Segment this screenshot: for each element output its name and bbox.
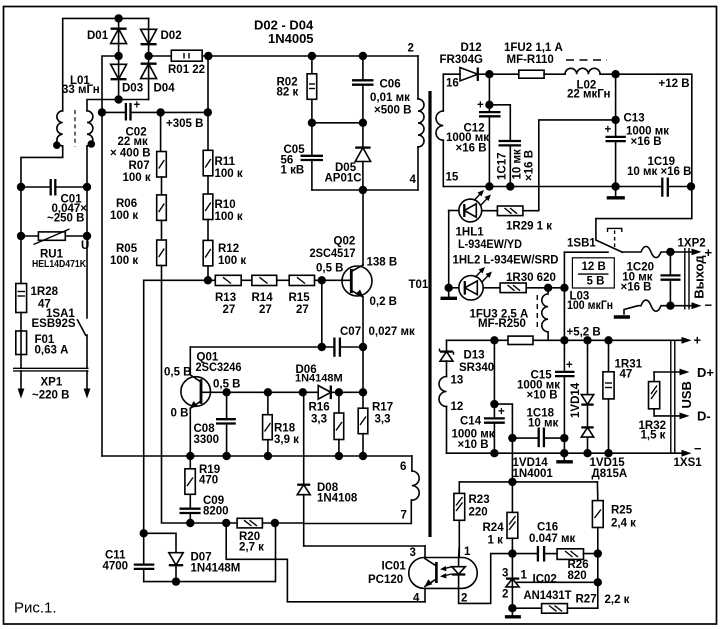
svg-text:C07: C07: [340, 326, 361, 338]
svg-text:3,9 к: 3,9 к: [274, 434, 299, 446]
ground bar 5V rail: [556, 453, 573, 462]
svg-text:100 к: 100 к: [123, 172, 151, 184]
svg-text:Рис.1.: Рис.1.: [14, 600, 57, 617]
transformer T01 primary 2-4: [408, 43, 429, 292]
svg-text:T01: T01: [409, 279, 429, 291]
svg-text:3,3: 3,3: [311, 414, 327, 426]
svg-text:0,63 А: 0,63 А: [35, 345, 69, 357]
svg-text:D+: D+: [697, 365, 714, 380]
svg-text:D13: D13: [464, 350, 485, 362]
wire switch left contact: [564, 251, 608, 253]
svg-text:+5,2 В: +5,2 В: [567, 327, 601, 339]
resistor 1R32 1,5k: [639, 372, 667, 442]
svg-text:XP1: XP1: [41, 377, 63, 389]
svg-text:R06: R06: [116, 198, 137, 210]
diode D01: [87, 29, 127, 44]
svg-text:1C17: 1C17: [497, 153, 509, 181]
wire base drive row: [144, 279, 216, 281]
diode D08 1N4108: [297, 392, 358, 546]
wire AC top rail: [63, 18, 149, 110]
node C15 bottom: [560, 449, 568, 457]
svg-text:HEL14D471K: HEL14D471K: [32, 258, 86, 270]
optocoupler IC01 PC120: [368, 546, 477, 605]
wire opto pin4 exit: [424, 588, 426, 601]
svg-text:0 В: 0 В: [171, 408, 189, 420]
transformer T01 feedback winding 6-7: [400, 456, 419, 522]
resistor 1R28 47: [16, 284, 59, 313]
svg-text:PC120: PC120: [368, 574, 403, 586]
svg-text:100 к: 100 к: [218, 255, 246, 267]
node D05 top: [359, 119, 367, 127]
diode D12 FR304G: [440, 42, 519, 81]
resistor R14 27: [252, 275, 277, 316]
svg-text:×10 В: ×10 В: [527, 390, 558, 402]
capacitor C01: [17, 179, 91, 225]
inductor L01 33 mH: [53, 75, 100, 149]
svg-text:D03: D03: [122, 83, 143, 95]
node IC02 cathode: [508, 549, 516, 557]
svg-text:2SC4517: 2SC4517: [310, 248, 356, 260]
wire R10-R12: [207, 220, 209, 241]
svg-text:0,01 мк: 0,01 мк: [370, 92, 410, 104]
svg-text:R11: R11: [215, 156, 236, 168]
node C12 bottom: [485, 182, 493, 190]
svg-text:AP01C: AP01C: [325, 173, 362, 185]
capacitor C12 1000uF 16V: [446, 74, 501, 186]
wire C13 top to 1R29 drop: [523, 120, 616, 211]
svg-text:IC02: IC02: [533, 574, 557, 586]
svg-text:27: 27: [296, 304, 309, 316]
LED 1HL1 L-934EW/YD: [449, 190, 522, 251]
svg-text:1HL2 L-934EW/SRD: 1HL2 L-934EW/SRD: [453, 255, 559, 267]
wire emitter ground rail: [102, 455, 412, 457]
svg-text:12: 12: [451, 401, 464, 413]
wire pin4 row: [312, 189, 418, 191]
node 1C17 top tap: [485, 101, 493, 109]
svg-text:Д815А: Д815А: [592, 468, 628, 480]
svg-text:2: 2: [502, 589, 508, 601]
svg-text:1,5 к: 1,5 к: [641, 430, 666, 442]
node Q02 base drive: [318, 276, 326, 284]
resistor R25 2,4k: [592, 482, 636, 608]
pushbutton 1SB1: [567, 228, 623, 252]
resistor R18 3,9k: [263, 392, 300, 456]
svg-text:0,2 В: 0,2 В: [370, 296, 398, 308]
capacitor C13 1000uF 16V: [605, 74, 670, 186]
svg-text:1 кВ: 1 кВ: [281, 165, 305, 177]
wire L01 left bottom to input rail: [21, 146, 63, 284]
wire R13-R14: [241, 279, 252, 281]
resistor 1R31 47: [603, 340, 643, 453]
svg-text:USB: USB: [679, 381, 694, 408]
svg-text:AN1431T: AN1431T: [524, 590, 572, 602]
svg-text:1N4148M: 1N4148M: [295, 373, 343, 385]
resistor R16 3,3: [309, 392, 344, 456]
node R16 top: [335, 388, 343, 396]
capacitor C16 0.047uF: [512, 522, 575, 562]
svg-text:220: 220: [469, 507, 488, 519]
capacitor C15 1000uF 10V: [517, 340, 575, 453]
node R18 top: [264, 388, 272, 396]
connector USB: [671, 340, 694, 453]
transistor Q01 2SC3246: [164, 352, 242, 420]
svg-text:0.047 мк: 0.047 мк: [529, 533, 575, 545]
svg-text:2,7 к: 2,7 к: [239, 542, 264, 554]
svg-text:8200: 8200: [203, 506, 229, 518]
node C14 bottom: [490, 449, 498, 457]
wire minus node to left rail: [102, 56, 119, 456]
svg-text:470: 470: [199, 475, 218, 487]
transistor Q02 2SC4517: [310, 236, 398, 309]
svg-text:1XP2: 1XP2: [678, 238, 706, 250]
resistor R01 22: [168, 50, 205, 76]
node C14 feed: [490, 336, 498, 344]
node R24 top: [508, 478, 516, 486]
wire R14-R15: [277, 279, 290, 281]
resistor R27 2,2k: [512, 594, 629, 614]
svg-text:0,027 мк: 0,027 мк: [369, 326, 415, 338]
svg-text:R23: R23: [469, 494, 490, 506]
wire switch to plug: [86, 335, 88, 368]
wire D- row: [654, 415, 684, 417]
node D07 top tap: [140, 529, 148, 537]
svg-text:10 мк: 10 мк: [528, 418, 558, 430]
wire bridge right leg: [148, 18, 150, 99]
svg-text:100 к: 100 к: [215, 211, 243, 223]
svg-text:MF-R250: MF-R250: [478, 318, 526, 330]
wire R07 chain top: [160, 112, 162, 151]
ground bar IC02: [505, 608, 521, 617]
wire D+ row: [654, 371, 684, 373]
svg-text:R12: R12: [218, 243, 239, 255]
svg-text:2: 2: [408, 43, 414, 55]
node IC02 ref join: [594, 578, 602, 586]
wire opto pin1 from R23: [458, 545, 461, 558]
svg-text:100 к: 100 к: [110, 210, 138, 222]
diode D02: [141, 29, 182, 44]
fuse 1FU3 MF-R250: [470, 309, 534, 345]
node rail R16: [335, 452, 343, 460]
svg-text:C13: C13: [624, 113, 645, 125]
resistor R15 27: [289, 275, 315, 316]
node VD14 top: [583, 336, 591, 344]
capacitor C07 0,027uF: [190, 280, 415, 357]
capacitor 1C19 10uF 16V: [627, 156, 695, 197]
svg-text:4: 4: [413, 593, 420, 605]
wire +305 top rail: [202, 55, 418, 57]
svg-text:3,3: 3,3: [375, 414, 391, 426]
node rail Q01e: [186, 452, 194, 460]
capacitor 1C20 10uF 16V: [620, 252, 680, 306]
node VD15 bottom: [583, 449, 591, 457]
wire 1HL1 to 1HL2: [448, 211, 450, 288]
node +305 rail left: [156, 108, 164, 116]
node C05 top: [308, 119, 316, 127]
wire D07 bottom row: [144, 523, 276, 582]
resistor R19 470: [185, 456, 220, 509]
svg-text:L-934EW/YD: L-934EW/YD: [458, 239, 522, 251]
svg-text:5 В: 5 В: [587, 276, 605, 288]
svg-text:U: U: [81, 240, 89, 252]
svg-text:+: +: [498, 406, 505, 418]
resistor R20 2,7k: [237, 518, 304, 553]
svg-text:13: 13: [451, 375, 464, 387]
capacitor C02 22uF 400V: [98, 100, 208, 160]
wire Q01 emitter down: [189, 408, 191, 456]
svg-text:1HL1: 1HL1: [456, 227, 485, 239]
wire switch tap vertical: [563, 252, 565, 340]
svg-text:R24: R24: [483, 522, 505, 534]
svg-text:R07: R07: [129, 160, 150, 172]
wire Q01 collector up: [189, 347, 191, 375]
wire bridge left leg: [118, 18, 120, 99]
node L02 out: [611, 70, 619, 78]
svg-text:1N4005: 1N4005: [268, 31, 314, 46]
svg-text:D12: D12: [461, 42, 482, 54]
node D06 anode: [299, 388, 307, 396]
node bridge AC1: [114, 14, 122, 22]
svg-text:×16 В: ×16 В: [631, 136, 662, 148]
node R17 top: [359, 388, 367, 396]
svg-text:138 В: 138 В: [367, 257, 398, 269]
svg-text:×16 В: ×16 В: [524, 150, 536, 181]
wire 1XP2 minus row: [624, 300, 670, 314]
svg-text:R27: R27: [576, 594, 597, 606]
svg-text:1: 1: [464, 546, 471, 558]
diode D04: [141, 64, 176, 95]
svg-text:R18: R18: [274, 423, 296, 435]
connector 1XP2: [678, 238, 707, 310]
svg-text:10 мк: 10 мк: [512, 149, 524, 179]
node 1R31 bottom: [604, 449, 612, 457]
capacitor C11 4700: [103, 533, 155, 581]
resistor 1R30 620: [500, 272, 564, 293]
svg-text:1N4001: 1N4001: [513, 468, 554, 480]
svg-text:16: 16: [446, 78, 459, 90]
fuse F01 0,63 A: [16, 331, 69, 357]
svg-text:100 к: 100 к: [110, 255, 138, 267]
wire +12 rail right: [596, 74, 692, 240]
node +305 rail right: [204, 108, 212, 116]
resistor R05 100k: [110, 240, 166, 267]
svg-text:100 к: 100 к: [215, 168, 243, 180]
node rail R18: [264, 452, 272, 460]
resistor R24 1k: [483, 512, 518, 608]
node R26 right: [594, 549, 602, 557]
resistor R12 100k: [203, 240, 246, 267]
resistor R23 220: [454, 482, 490, 558]
svg-text:R10: R10: [215, 199, 236, 211]
svg-text:27: 27: [259, 304, 272, 316]
wire Q02 collector up: [362, 190, 364, 265]
wire R02/C06 bottom row: [312, 122, 363, 124]
capacitor C14 1000uF 10V: [452, 340, 506, 453]
svg-text:×500 В: ×500 В: [374, 105, 411, 117]
node bridge plus: [144, 52, 152, 60]
svg-text:C06: C06: [380, 79, 401, 91]
node C12 top: [485, 70, 493, 78]
node C14 top tap: [490, 400, 498, 408]
diode D05 AP01C: [325, 123, 371, 190]
svg-text:+12 В: +12 В: [659, 78, 690, 90]
wire R12 to base row: [207, 266, 209, 280]
svg-text:+: +: [134, 100, 141, 112]
svg-text:1R30 620: 1R30 620: [506, 272, 556, 284]
svg-text:~250 В: ~250 В: [47, 213, 84, 225]
capacitor 1C17 10uF 16V: [489, 105, 535, 187]
svg-text:15: 15: [446, 172, 459, 184]
wire to D07 anode: [144, 533, 176, 552]
node L03 bottom join: [560, 336, 568, 344]
wire R11-R10: [207, 176, 209, 194]
wire feedback top row: [459, 481, 597, 483]
wire opto pin2 to IC02: [459, 554, 513, 604]
resistor R11 100k: [203, 150, 243, 180]
shunt regulator IC02 AN1431T: [502, 568, 598, 603]
svg-text:2,4 к: 2,4 к: [611, 518, 636, 530]
svg-text:D-: D-: [697, 409, 711, 424]
svg-text:3300: 3300: [194, 434, 220, 446]
wire F01 to plug: [20, 355, 22, 369]
wire R06-R05: [161, 220, 163, 240]
capacitor C05 56 1kV: [281, 123, 324, 190]
wire R05 bottom long down: [162, 266, 190, 524]
wire plus node to R01: [149, 55, 172, 57]
node C13 bottom: [611, 182, 619, 190]
svg-text:1: 1: [521, 570, 528, 582]
resistor R26 820: [557, 549, 598, 582]
LED 1HL2 L-934EW/SRD: [449, 255, 559, 300]
svg-text:Q02: Q02: [334, 236, 356, 248]
diode 1VD15 D815A zener: [581, 427, 593, 453]
svg-text:10 мк ×16 В: 10 мк ×16 В: [627, 166, 691, 178]
varistor RU1: [17, 229, 91, 270]
svg-text:33 мГн: 33 мГн: [62, 84, 100, 96]
node AC2: [114, 95, 122, 103]
voltage select box 12V/5V: [572, 258, 614, 288]
wire C09 bottom row: [190, 522, 237, 524]
svg-text:0,5 В: 0,5 В: [316, 263, 344, 275]
svg-text:~220 В: ~220 В: [32, 390, 69, 402]
node switch tap: [560, 284, 568, 292]
resistor R10 100k: [203, 194, 243, 223]
diode D03: [111, 64, 144, 94]
svg-text:×16 В: ×16 В: [456, 143, 487, 155]
resistor R07 100k: [123, 152, 167, 185]
wire R24 branch vertical: [511, 438, 513, 512]
svg-text:D04: D04: [154, 83, 176, 95]
svg-text:1R29 1 к: 1R29 1 к: [506, 221, 552, 233]
svg-text:2,2 к: 2,2 к: [605, 594, 630, 606]
svg-text:22 мк: 22 мк: [118, 136, 148, 148]
wire R11 chain top: [207, 56, 209, 150]
svg-text:1N4108: 1N4108: [317, 493, 358, 505]
svg-text:+: +: [694, 333, 702, 348]
svg-text:47: 47: [620, 369, 633, 381]
svg-text:7: 7: [401, 510, 407, 522]
svg-text:R25: R25: [611, 505, 633, 517]
transformer T01 secondary 16-15: [436, 74, 459, 186]
node bridge minus: [114, 52, 122, 60]
svg-text:2SC3246: 2SC3246: [196, 362, 242, 374]
resistor 1R29 1k: [482, 206, 553, 233]
node R20 right: [271, 519, 279, 527]
svg-text:1SB1: 1SB1: [567, 238, 596, 250]
wire C11/D07 top feed: [143, 280, 145, 533]
svg-text:R17: R17: [372, 402, 393, 414]
svg-text:0,5 В: 0,5 В: [164, 367, 192, 379]
svg-text:R16: R16: [309, 402, 330, 414]
svg-text:100 мкГн: 100 мкГн: [567, 300, 613, 312]
svg-text:+: +: [605, 124, 612, 136]
diode D07 1N4148M: [169, 552, 241, 582]
node 1HL2 anode: [445, 284, 453, 292]
fuse 1FU2 MF-R110: [504, 42, 565, 78]
capacitor C09 8200: [180, 495, 229, 523]
node C08 top: [222, 388, 230, 396]
resistor R13 27: [215, 275, 241, 316]
svg-text:MF-R110: MF-R110: [507, 54, 554, 66]
wire 1R28 to F01: [20, 313, 22, 332]
svg-text:4: 4: [410, 174, 417, 186]
wire secondary 0V row: [447, 452, 687, 454]
svg-text:×16 В: ×16 В: [620, 282, 651, 294]
wire pin7 row: [304, 500, 412, 524]
node D07 cathode: [172, 577, 180, 585]
svg-text:IC01: IC01: [382, 561, 407, 573]
svg-text:4700: 4700: [103, 561, 129, 573]
svg-text:R15: R15: [289, 292, 311, 304]
svg-text:D01: D01: [87, 30, 109, 42]
diode D06 1N4148M: [295, 364, 363, 399]
transformer T01 secondary 13-12: [439, 361, 463, 453]
node L03 top: [544, 284, 552, 292]
svg-text:R14: R14: [252, 292, 274, 304]
ground bar secondary: [607, 187, 625, 198]
node C09 bottom: [186, 519, 194, 527]
wire C14 tap to 1C18: [494, 404, 512, 438]
wire L01 right bottom down: [86, 146, 88, 318]
svg-text:R13: R13: [215, 292, 236, 304]
svg-text:1 к: 1 к: [488, 535, 504, 547]
diode 1VD14 1N4001: [570, 340, 594, 427]
inductor L03 100uH: [537, 288, 613, 341]
svg-text:3: 3: [410, 547, 416, 559]
svg-text:Выход: Выход: [691, 255, 706, 299]
node 1C20 bottom: [666, 302, 674, 310]
svg-text:+: +: [477, 100, 484, 112]
node IC02 anode: [508, 604, 516, 612]
resistor R06 100k: [110, 195, 166, 222]
svg-text:C16: C16: [537, 522, 558, 534]
svg-text:12 В: 12 В: [582, 261, 606, 273]
capacitor 1C18 10uF: [508, 408, 568, 448]
svg-text:D02: D02: [161, 30, 182, 42]
svg-text:6: 6: [400, 461, 406, 473]
wire R15 to Q02 base: [315, 279, 352, 281]
svg-text:R01 22: R01 22: [168, 64, 205, 76]
transformer T01 core: [428, 91, 431, 537]
diode D13 SR340: [440, 340, 495, 374]
wire opto pin3 entry: [424, 546, 426, 558]
node 1C17 bottom: [506, 182, 514, 190]
node R20 left: [222, 519, 230, 527]
wire pin16 row: [443, 73, 460, 75]
capacitor C06 0,01uF 500V: [352, 52, 411, 123]
svg-text:820: 820: [568, 570, 587, 582]
ground bar 1XP2: [614, 315, 630, 318]
wire Q01 base row: [201, 391, 318, 393]
